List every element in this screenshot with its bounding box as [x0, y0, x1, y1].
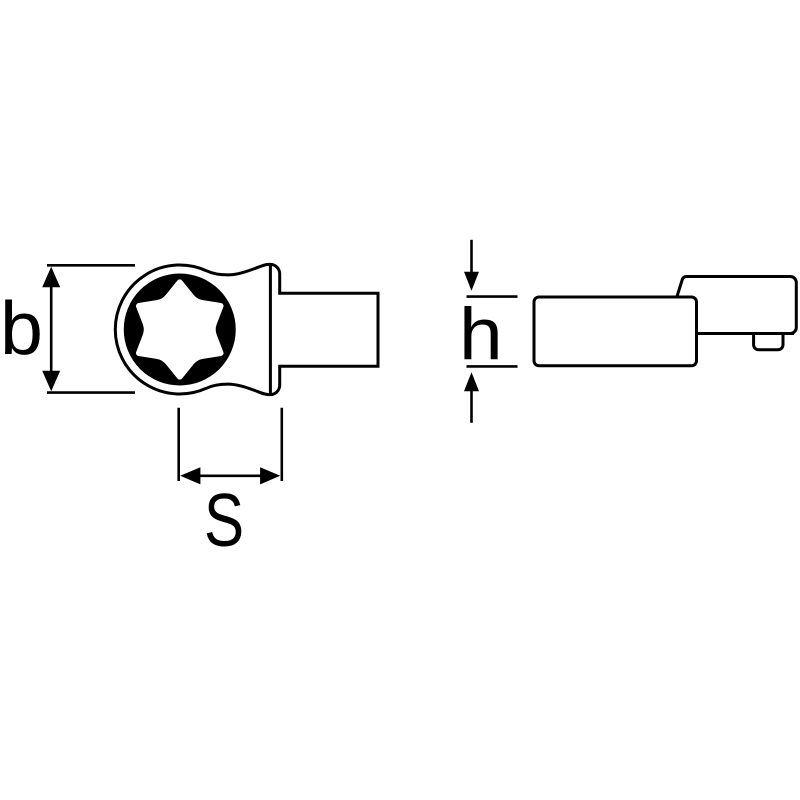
S dimension: right extension line	[280, 408, 283, 481]
torx star opening	[136, 279, 224, 379]
side view: head (drawn first, rect overlaps)	[676, 277, 796, 334]
h dimension: bottom tick	[467, 365, 518, 368]
ring head outer contour (front view)	[115, 264, 378, 394]
h dimension: up arrow	[470, 391, 473, 423]
label h	[459, 291, 503, 376]
side view: shank rounded rectangle	[534, 297, 697, 366]
label b	[0, 285, 43, 371]
S dimension: left extension line	[177, 408, 180, 481]
side view: square drive tab	[754, 334, 783, 350]
label S	[204, 477, 244, 563]
b dimension: vertical line with arrows	[50, 278, 53, 381]
b dimension: bottom extension line	[47, 391, 135, 394]
h dimension: down arrow	[470, 240, 473, 272]
collar inner edge line	[269, 263, 272, 395]
torx black annulus	[124, 274, 236, 386]
side view: head bottom edge over tab	[694, 332, 794, 335]
h dimension: top tick	[467, 295, 518, 298]
b dimension: top extension line	[47, 264, 135, 267]
S dimension: horizontal line with arrows	[192, 474, 269, 477]
